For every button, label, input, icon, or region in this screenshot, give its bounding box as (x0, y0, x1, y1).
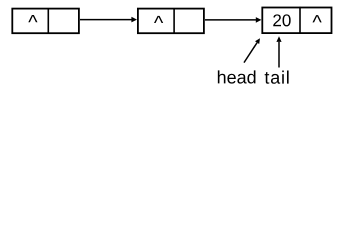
head pointer arrow (diagonal) (244, 38, 260, 62)
node N2 cell divider (173, 8, 175, 34)
label: tail (265, 71, 289, 84)
node N1 box (12, 9, 79, 34)
wire: arrow from node N1 next cell to node N2 (80, 17, 137, 23)
node N2 box (138, 9, 204, 34)
wire: arrow from node N2 next cell to node N3 (205, 17, 261, 23)
node N1 cell divider (47, 8, 49, 34)
tail pointer arrow (vertical) (276, 36, 281, 67)
node N2 data cell null symbol ^ (154, 16, 163, 23)
node N3 next cell null symbol ^ (313, 15, 322, 22)
node N3 cell divider (299, 7, 301, 34)
label: head (218, 70, 256, 83)
node N3 box (262, 8, 331, 34)
node N1 data cell null symbol ^ (28, 15, 37, 22)
node N3 data value 20 (273, 14, 290, 26)
